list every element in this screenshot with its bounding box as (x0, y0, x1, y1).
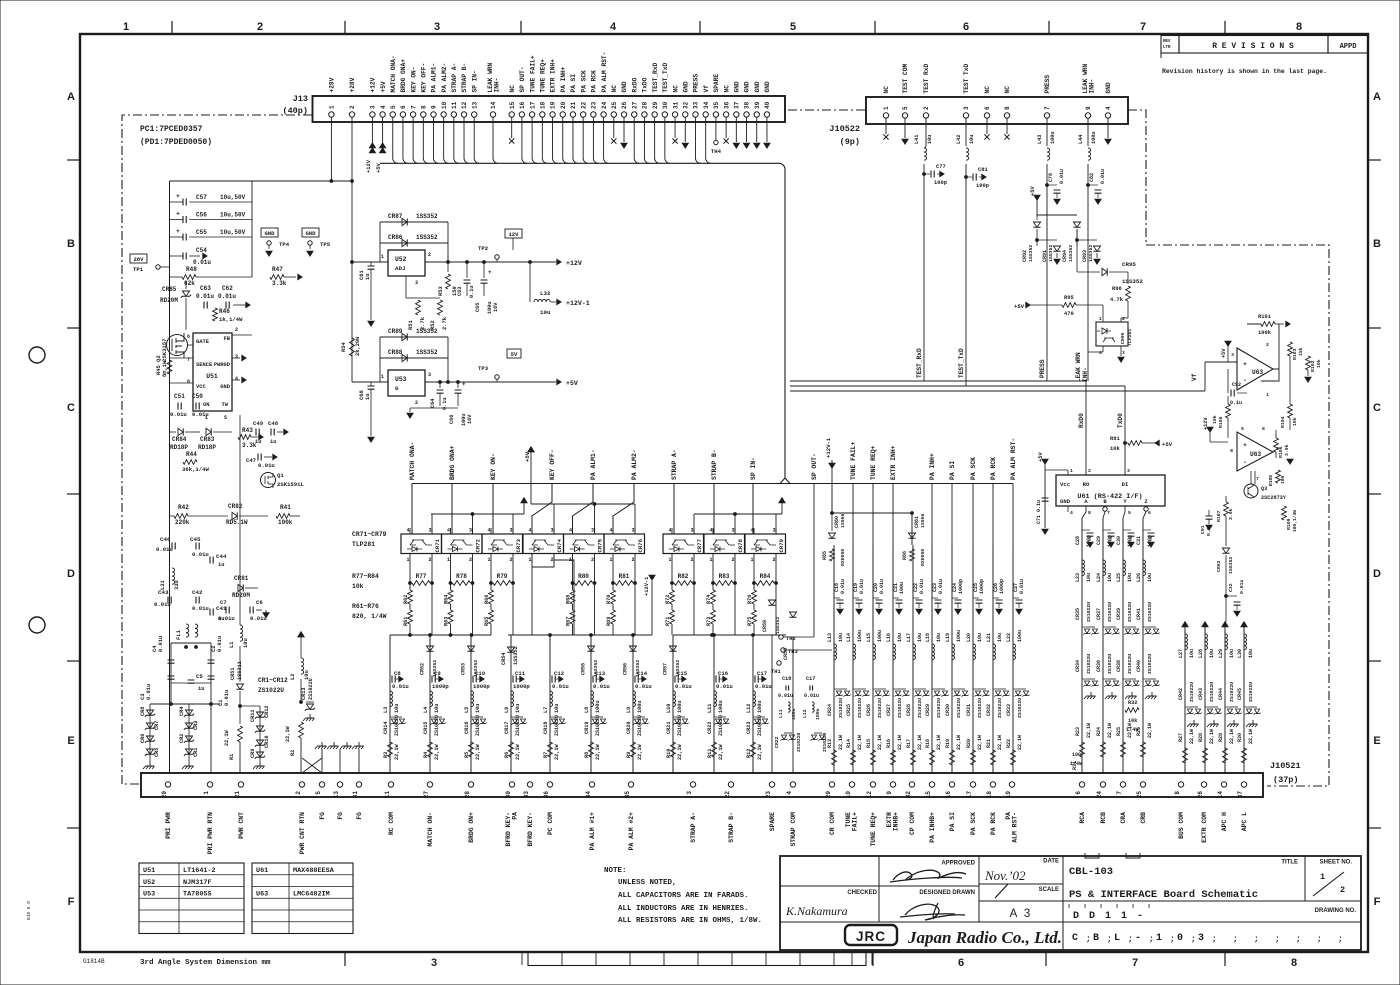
svg-text:0.01u: 0.01u (840, 579, 846, 594)
diode CR58 1SS352 strap com channel (789, 612, 796, 617)
svg-text:3: 3 (1198, 933, 1204, 944)
svg-text:U52: U52 (395, 256, 407, 263)
common bus segment group B (508, 634, 652, 636)
svg-text:+28V: +28V (329, 77, 336, 92)
svg-text:1SS352: 1SS352 (416, 328, 438, 335)
capacitor C91 0.1u (1206, 516, 1213, 519)
inductor L44 100u (1087, 118, 1089, 146)
svg-text:12: 12 (866, 791, 873, 799)
svg-text:10u: 10u (1229, 649, 1235, 658)
resistor R53 150 (447, 262, 449, 272)
svg-text:0.01u: 0.01u (192, 551, 209, 558)
capacitor C92 0.1u (1227, 369, 1229, 393)
J10521 pin 11 (RC COM) (388, 782, 393, 787)
svg-text:23: 23 (765, 791, 772, 799)
inductor L15 100u (873, 644, 876, 660)
svg-text:R5: R5 (464, 752, 470, 758)
wire cluster node (150, 703, 220, 705)
resistor R6 22,1W (509, 742, 514, 757)
svg-text:C82: C82 (1089, 173, 1095, 182)
J10521 pin 3 (STRAP A-) (690, 782, 695, 787)
svg-text:DATE: DATE (1043, 859, 1059, 865)
svg-text:SP OUT-: SP OUT- (811, 453, 818, 480)
svg-text:CR62: CR62 (1216, 560, 1222, 572)
resistor R27 22,1W (1183, 748, 1188, 763)
J13 pin 13 (SP IN-) (472, 112, 477, 117)
svg-text:CR61: CR61 (914, 516, 920, 528)
svg-text:10u: 10u (936, 633, 942, 642)
svg-text:0.01u: 0.01u (193, 259, 211, 266)
svg-text:22,1W: 22,1W (434, 744, 440, 760)
J13 pin 14 (LEAK WRN INH-) (490, 112, 495, 117)
inductor L22 100u (1013, 644, 1016, 660)
J13 pin15 no-connect (511, 117, 513, 138)
J10522 pin6 no-connect (986, 118, 988, 134)
J13 pin38 ground (746, 117, 748, 142)
svg-text:2: 2 (428, 252, 431, 258)
wire pin20 column (169, 704, 171, 773)
svg-text:3: 3 (691, 528, 694, 534)
J13 pin36 no-connect (725, 117, 727, 138)
J13 pin 25 (NC) (611, 112, 616, 117)
diode CR56 1SS352 (629, 646, 636, 651)
resistor R17 22,1W (911, 750, 916, 765)
svg-text:ZS1022U: ZS1022U (1248, 682, 1254, 702)
svg-text:RD20M: RD20M (160, 297, 178, 304)
svg-text:R51: R51 (408, 320, 414, 330)
svg-text:BRDG ON+: BRDG ON+ (468, 812, 475, 843)
zener stack CR8 CR7 CR6 CR5 (146, 710, 153, 715)
svg-text:R86: R86 (902, 551, 908, 560)
diode CR52 1SS352 (426, 646, 433, 651)
svg-text:22,1W: 22,1W (515, 744, 521, 760)
svg-text:R53: R53 (438, 286, 444, 296)
svg-text:40: 40 (764, 101, 771, 109)
svg-text:TP3: TP3 (478, 365, 489, 372)
svg-text:D: D (1373, 568, 1381, 580)
J13 pin2 wire +28V (351, 117, 353, 181)
svg-text:1SS352: 1SS352 (635, 660, 641, 677)
svg-text:3: 3 (431, 957, 437, 969)
svg-text:R96: R96 (1112, 286, 1122, 292)
capacitor C14 0.01u (632, 635, 634, 773)
svg-text:22,1W: 22,1W (857, 735, 863, 750)
svg-text:25: 25 (611, 101, 618, 109)
resistor R101 100k (1261, 322, 1275, 327)
svg-text:R2: R2 (290, 750, 296, 756)
svg-text:U63: U63 (1252, 369, 1263, 376)
svg-text:MATCH ONA-: MATCH ONA- (390, 55, 397, 92)
svg-text:1: 1 (1320, 872, 1325, 882)
svg-text:PA: PA (512, 812, 519, 820)
svg-text:CR43: CR43 (1198, 688, 1204, 700)
resistor R23 22,1W (1080, 742, 1085, 757)
svg-text:LTR: LTR (1163, 46, 1171, 50)
svg-text:10k: 10k (352, 583, 364, 590)
svg-text:3: 3 (415, 280, 418, 286)
svg-text:1: 1 (710, 557, 713, 563)
svg-text:C: C (67, 402, 75, 414)
diode CR84 RD18P (170, 431, 177, 433)
svg-text:CR5: CR5 (154, 748, 160, 757)
svg-text:1u: 1u (198, 686, 204, 692)
svg-text:22,1W: 22,1W (1147, 723, 1153, 738)
svg-text:2: 2 (923, 106, 930, 110)
resistor R107 3.9k (1224, 502, 1229, 516)
scale slash (995, 884, 1008, 898)
J13 pin 15 (NC) (509, 112, 514, 117)
resistor R82 10k with R72 R71 820 (671, 563, 673, 583)
frame row ticks left (67, 159, 80, 161)
svg-text:R67: R67 (566, 617, 572, 626)
svg-text:CRA: CRA (1120, 812, 1127, 824)
zener CR13 ZS1022U (300, 679, 302, 702)
capacitor C81 100p (965, 164, 967, 386)
svg-text:R30: R30 (1237, 733, 1243, 742)
svg-text:2: 2 (429, 557, 432, 563)
svg-text:5: 5 (790, 21, 796, 33)
svg-text:TEST COM: TEST COM (902, 64, 909, 94)
svg-text:4: 4 (610, 528, 613, 534)
svg-text:C45: C45 (190, 536, 201, 543)
svg-text:ZS1022U: ZS1022U (258, 687, 284, 694)
capacitor C17 0.01u (752, 635, 754, 773)
resistor R12 22,1W (751, 742, 756, 757)
svg-text:CR24: CR24 (827, 704, 833, 716)
svg-text:26: 26 (1197, 791, 1204, 799)
svg-text:B: B (1373, 238, 1381, 250)
J10521 pin 26 (EXTR COM) (1201, 782, 1206, 787)
svg-text:SP IN-: SP IN- (750, 457, 757, 480)
svg-text:R61: R61 (403, 617, 409, 626)
svg-text:R76: R76 (747, 595, 753, 604)
inductor L25 10u (1123, 560, 1126, 576)
svg-text:2: 2 (415, 400, 418, 406)
svg-text:APC L: APC L (1241, 812, 1248, 831)
svg-text:PA SCK: PA SCK (580, 70, 587, 93)
svg-text:BRDG ONA+: BRDG ONA+ (449, 445, 456, 480)
svg-text:4: 4 (669, 528, 672, 534)
resistor R78 10k with R64 R63 820 (450, 563, 452, 583)
capacitor C7 0.01u (226, 607, 229, 614)
svg-text:Q1: Q1 (277, 472, 284, 479)
svg-text:3: 3 (551, 528, 554, 534)
svg-text:EXTR COM: EXTR COM (1201, 812, 1208, 843)
svg-text:0.01u: 0.01u (804, 693, 819, 699)
svg-text:22,1W: 22,1W (977, 735, 983, 750)
channel wire C18 (833, 545, 835, 773)
svg-text:(37p): (37p) (1273, 775, 1299, 785)
svg-text:4: 4 (488, 528, 491, 534)
inductor L20 10u (973, 644, 976, 660)
svg-text:CR10: CR10 (264, 736, 270, 748)
svg-text:7: 7 (1044, 106, 1051, 110)
svg-text:8: 8 (187, 379, 190, 385)
svg-text:CR54: CR54 (501, 653, 507, 665)
svg-text:100u: 100u (677, 701, 683, 713)
capacitor C65 100u 16V (483, 262, 485, 278)
svg-text:+5V: +5V (1221, 348, 1227, 358)
svg-text:U53: U53 (143, 891, 155, 899)
svg-text:10u: 10u (1248, 649, 1254, 658)
svg-text:22,1W: 22,1W (917, 735, 923, 750)
svg-text:+: + (1243, 361, 1247, 368)
svg-text:R17: R17 (906, 739, 912, 748)
svg-text:R E V I S I O N S: R E V I S I O N S (1212, 42, 1294, 51)
svg-text:F: F (1374, 896, 1381, 908)
svg-text:L5: L5 (464, 707, 470, 713)
svg-text:0.01u: 0.01u (778, 693, 793, 699)
inductor L12a 100u (812, 702, 814, 712)
svg-text:820, 1/4W: 820, 1/4W (352, 613, 387, 620)
svg-text:ZS1022U: ZS1022U (897, 698, 903, 718)
svg-text:CR38: CR38 (1116, 660, 1122, 672)
channel wire C20 (872, 545, 874, 773)
zener CR81 RD20M (238, 584, 243, 591)
supply arrow pin2 column (298, 632, 304, 637)
test point TP4 GND (261, 228, 278, 237)
svg-text:PWRGD: PWRGD (214, 362, 231, 368)
svg-text:R44: R44 (186, 451, 197, 458)
svg-text:100,1/4W: 100,1/4W (1292, 510, 1298, 532)
svg-text:470: 470 (1064, 311, 1074, 317)
svg-text:D: D (67, 568, 75, 580)
svg-text:TUNE REQ+: TUNE REQ+ (870, 445, 877, 480)
svg-text:GND: GND (764, 81, 771, 92)
capacitor C9 1000p (429, 635, 431, 773)
svg-text:PA ALM2-: PA ALM2- (441, 63, 448, 93)
test point TP1 28V (130, 254, 147, 263)
svg-text:L27: L27 (1178, 649, 1184, 658)
svg-text:+28V: +28V (349, 77, 356, 92)
svg-text:0.01u: 0.01u (1019, 579, 1025, 594)
svg-text:100u: 100u (1091, 132, 1097, 144)
svg-text:TxDO: TxDO (642, 77, 649, 92)
optocoupler CR79 TLP281 (745, 534, 786, 554)
svg-text:1: 1 (1121, 911, 1127, 922)
svg-text:SCALE: SCALE (1039, 887, 1059, 893)
frame column ticks top (171, 21, 173, 34)
inductor L24 10u (1103, 560, 1106, 576)
resistor R18 22,1W (930, 750, 935, 765)
svg-text:24: 24 (1096, 791, 1103, 799)
svg-text:0.01u: 0.01u (552, 683, 569, 690)
svg-text:8: 8 (1230, 448, 1233, 454)
svg-text:ZS1022U: ZS1022U (1107, 602, 1113, 622)
svg-text:3: 3 (1231, 352, 1234, 358)
inductor L11 100u (714, 691, 717, 707)
diode CR51 1SS311 (239, 646, 241, 682)
svg-text:PA ALM #2+: PA ALM #2+ (628, 812, 635, 851)
svg-text:R22: R22 (1006, 739, 1012, 748)
svg-text:10u: 10u (243, 638, 249, 648)
svg-text:100u: 100u (718, 701, 724, 713)
svg-text:10u: 10u (838, 633, 844, 642)
svg-text:100k: 100k (278, 519, 293, 526)
svg-text:1SS352: 1SS352 (775, 617, 781, 634)
J10521 pin 10 (TUNE FAIL+) (849, 782, 854, 787)
approved signature (890, 870, 966, 882)
svg-text:L20: L20 (966, 633, 972, 642)
svg-text:R12: R12 (746, 749, 752, 758)
inductor L30 10u (1241, 622, 1247, 627)
svg-text:+5V: +5V (380, 81, 387, 92)
svg-text:100u: 100u (877, 630, 883, 642)
svg-text:ZS1022U: ZS1022U (1127, 602, 1133, 622)
svg-text:TH4: TH4 (711, 148, 722, 155)
svg-text:Vf: Vf (703, 85, 710, 93)
svg-text:L17: L17 (906, 633, 912, 642)
resistor R105 10k (1226, 404, 1231, 418)
svg-text:U53: U53 (395, 376, 407, 383)
svg-text:R23: R23 (1075, 727, 1081, 736)
svg-text:PA SCK: PA SCK (970, 457, 977, 480)
svg-text:C48: C48 (268, 420, 279, 427)
svg-text:R48: R48 (186, 266, 197, 273)
svg-text:RXE050: RXE050 (920, 549, 926, 566)
MOSFET Q2 2SK3157 (167, 335, 188, 356)
svg-text:11: 11 (451, 101, 458, 109)
svg-text:F: F (68, 896, 75, 908)
svg-text:2k,20W: 2k,20W (355, 336, 361, 356)
svg-text:STRAP COM: STRAP COM (790, 812, 797, 847)
resistor R2 22,1W on pin2 column (299, 722, 304, 738)
+5V collector distribution mid opto group (531, 503, 635, 505)
svg-text:16: 16 (945, 791, 952, 799)
inductor L18 10u (932, 644, 935, 660)
svg-text:TUNE FAIL+: TUNE FAIL+ (529, 55, 536, 92)
J13 pin 12 (STRAP B-) (461, 112, 466, 117)
svg-text:PS & INTERFACE Board Schematic: PS & INTERFACE Board Schematic (1069, 889, 1258, 901)
svg-text:R106: R106 (1278, 446, 1284, 458)
svg-text:R80: R80 (578, 573, 589, 580)
inductor L31 33u (172, 568, 175, 584)
capacitor C47 0.01u (258, 454, 261, 461)
signal rail RxD0/TxD0/Vf horizontals (790, 380, 1086, 382)
svg-text:30: 30 (662, 101, 669, 109)
svg-text:;: ; (1149, 935, 1154, 944)
svg-text:7: 7 (1132, 957, 1138, 969)
bypass diode CR88 1SS352 (380, 357, 448, 359)
svg-text:ZS1022U: ZS1022U (1147, 602, 1153, 622)
svg-text:1S955: 1S955 (840, 513, 846, 528)
J10522 pin8 no-connect (1006, 118, 1008, 134)
svg-text:34: 34 (703, 101, 710, 109)
svg-text:INH-: INH- (1089, 79, 1096, 94)
svg-text:ON: ON (203, 402, 209, 408)
svg-text:15k: 15k (1298, 347, 1304, 356)
svg-text:CR73: CR73 (515, 538, 522, 552)
channel wire C22 (912, 545, 914, 773)
svg-text:TxD0: TxD0 (1117, 413, 1124, 428)
svg-text:PRESS: PRESS (1044, 75, 1051, 94)
J10521 pin 33 (BFRD KEY-) (527, 782, 532, 787)
svg-text:PWR CNT RTN: PWR CNT RTN (299, 812, 306, 854)
svg-text:CR22: CR22 (774, 736, 780, 748)
svg-text:NOTE:: NOTE: (604, 867, 627, 875)
J13 pin 38 (GND) (744, 112, 749, 117)
svg-text:0.01u: 0.01u (170, 411, 187, 418)
svg-text:220k: 220k (175, 519, 190, 526)
svg-text:24: 24 (601, 101, 608, 109)
svg-text:C51: C51 (174, 393, 185, 400)
svg-text:34: 34 (585, 791, 592, 799)
J13 pin 28 (TxDO) (642, 112, 647, 117)
inductor L41 10u (925, 118, 927, 146)
svg-text:1SS352: 1SS352 (1048, 245, 1054, 262)
svg-text:;: ; (1254, 935, 1259, 944)
svg-text:ZS1022U: ZS1022U (595, 715, 601, 736)
svg-text:CR21: CR21 (666, 722, 672, 734)
svg-text:ZS1022U: ZS1022U (434, 715, 440, 736)
inductor L21 10u (993, 644, 996, 660)
J13 pin3 +12V feed arrow (371, 117, 373, 143)
capacitor C30 100p (1122, 518, 1124, 773)
wire +28V top rail (170, 180, 353, 182)
svg-text:RD18P: RD18P (198, 444, 216, 451)
svg-text:+5V: +5V (524, 451, 531, 462)
svg-text:STRAP B-: STRAP B- (711, 449, 718, 480)
+5V output rail (425, 381, 556, 383)
svg-text:+12V-1: +12V-1 (825, 437, 832, 458)
JRC logo (845, 925, 897, 945)
svg-text:9: 9 (1085, 106, 1092, 110)
svg-text:L2: L2 (290, 674, 296, 680)
svg-text:100u: 100u (1050, 132, 1056, 144)
capacitor C56 10u,50V (170, 219, 184, 221)
svg-text:C47: C47 (246, 457, 256, 464)
svg-text:-: - (1137, 911, 1143, 922)
svg-text:C28: C28 (1075, 536, 1081, 545)
svg-text:1SS352: 1SS352 (416, 234, 438, 241)
svg-text:4: 4 (407, 528, 410, 534)
svg-text:20: 20 (161, 791, 168, 799)
inductor L7 10u (550, 691, 553, 707)
transistor Q3 2SC2873Y (1244, 484, 1258, 498)
J10522 pin 6 (NC) (984, 113, 989, 118)
svg-text:CR44: CR44 (1218, 688, 1224, 700)
svg-text:PC COM: PC COM (547, 812, 554, 835)
svg-text:G1814B: G1814B (83, 958, 105, 965)
capacitor C15 0.01u (672, 635, 674, 773)
svg-text:CR87: CR87 (388, 213, 403, 220)
svg-text:CR71~CR79: CR71~CR79 (352, 531, 387, 538)
svg-text:6: 6 (400, 105, 407, 109)
svg-text:22,1W: 22,1W (956, 735, 962, 750)
svg-text:C62: C62 (222, 285, 233, 292)
svg-text:CR76: CR76 (637, 538, 644, 552)
svg-text:C54: C54 (196, 247, 207, 254)
svg-text:1SS352: 1SS352 (416, 213, 438, 220)
svg-text:3.9k: 3.9k (1228, 508, 1234, 520)
resistor R5 22,1W (469, 742, 474, 757)
svg-text:R101: R101 (1258, 314, 1271, 320)
svg-text:;: ; (1275, 935, 1280, 944)
svg-text:4.7k: 4.7k (1110, 297, 1124, 303)
svg-text:R109: R109 (1286, 518, 1292, 530)
svg-text:CR14: CR14 (383, 722, 389, 734)
svg-text:R28: R28 (1198, 733, 1204, 742)
svg-text:(9p): (9p) (840, 137, 860, 147)
svg-text:J10522: J10522 (829, 124, 860, 134)
op-amp U63B (1237, 432, 1273, 471)
svg-text:CR6: CR6 (140, 734, 146, 743)
svg-text:17: 17 (966, 791, 973, 799)
svg-text:8: 8 (1088, 510, 1091, 516)
capacitor C41 1u (210, 609, 213, 616)
J13 pin 1 (+28V) (329, 112, 334, 117)
svg-text:R83: R83 (719, 573, 730, 580)
